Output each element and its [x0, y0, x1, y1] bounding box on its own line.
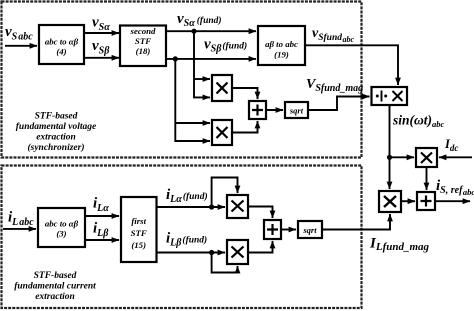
- wire VSfund_mag to divider: [308, 97, 370, 111]
- wire vSbeta: [84, 57, 119, 59]
- wire Idc input: [439, 156, 472, 158]
- wire Idc-multiplier to output adder: [426, 167, 428, 190]
- svg-text:(3): (3): [56, 229, 66, 239]
- wire vSbeta squared feed: [175, 59, 210, 141]
- wire vSabc input: [5, 45, 37, 47]
- wire vSalpha squared feed upper branch: [194, 78, 210, 80]
- wire vSfund_abc from (19) to divider: [305, 45, 398, 85]
- block sqrt (current): [298, 221, 322, 238]
- wire vSalpha^2 to adder: [232, 88, 258, 99]
- svg-text:(19): (19): [274, 50, 289, 60]
- svg-text:STF-based: STF-based: [34, 271, 77, 281]
- junction on vSalpha(fund): [191, 29, 196, 34]
- svg-text:extraction: extraction: [35, 292, 75, 302]
- svg-text:extraction: extraction: [36, 133, 76, 143]
- svg-text:STF-based: STF-based: [35, 112, 78, 122]
- svg-text:fundamental current: fundamental current: [14, 282, 96, 292]
- svg-text:fundamental voltage: fundamental voltage: [16, 122, 97, 132]
- wire iLalpha square loop: [212, 178, 238, 208]
- svg-text:sqrt: sqrt: [302, 225, 317, 235]
- wire vSbeta^2 to adder: [232, 121, 258, 133]
- wire iLbeta(fund): [157, 252, 226, 254]
- wire iLalpha(fund): [157, 206, 226, 208]
- svg-text:second: second: [130, 26, 157, 36]
- multiplier (vSalpha^2): [212, 75, 232, 101]
- adder (current): [264, 220, 281, 239]
- wire ILfund_mag to multiplier: [322, 214, 390, 230]
- multiplier (vSbeta^2): [212, 120, 232, 145]
- svg-text:(18): (18): [136, 46, 151, 56]
- wire iLalpha: [85, 215, 119, 217]
- label STF-based fundamental current extraction: [14, 271, 96, 302]
- svg-text:(synchronizer): (synchronizer): [27, 142, 84, 153]
- wire iLbeta: [85, 239, 119, 241]
- wire vSalpha squared feed: [194, 31, 210, 97]
- svg-text:STF: STF: [135, 36, 151, 46]
- wire adder to sqrt (current): [281, 229, 296, 231]
- multiplier (sin x ILfund_mag): [379, 191, 401, 212]
- label STF-based fundamental voltage extraction (synchronizer): [16, 112, 97, 154]
- svg-text:(4): (4): [56, 47, 66, 57]
- divider-multiplier block: [372, 87, 408, 105]
- junction on sin line: [387, 155, 392, 160]
- wire adder to sqrt (voltage): [266, 109, 283, 111]
- svg-text:(15): (15): [131, 240, 146, 250]
- wire vSalpha(fund): [166, 30, 256, 32]
- svg-text:abc to αβ: abc to αβ: [45, 37, 79, 47]
- dashed box: STF-based fundamental current extraction: [2, 166, 362, 309]
- wire iLbeta square loop: [212, 253, 238, 273]
- junction on iLalpha(fund): [209, 204, 214, 209]
- svg-text:STF: STF: [131, 228, 147, 238]
- wire iS,ref output: [435, 200, 470, 202]
- junction on iLbeta(fund): [209, 250, 214, 255]
- dashed box: STF-based fundamental voltage extraction (synchronizer): [2, 2, 362, 158]
- multiplier (iLbeta^2): [227, 240, 248, 264]
- svg-text:aβ to abc: aβ to abc: [265, 39, 298, 49]
- adder (voltage): [249, 101, 266, 119]
- wire vSbeta squared feed upper branch: [175, 122, 210, 124]
- wire vSalpha: [84, 32, 119, 34]
- block abc to alphabeta (3): [38, 208, 85, 247]
- svg-text:abc to αβ: abc to αβ: [45, 219, 79, 229]
- block sqrt (voltage): [285, 102, 308, 118]
- wire multiplier to output adder: [401, 200, 415, 202]
- wire sin(wt)abc down from divider: [389, 105, 391, 189]
- wire vSbeta(fund): [166, 58, 256, 60]
- wire iLabc input: [3, 228, 36, 230]
- wire sin branch to Idc multiplier: [390, 156, 415, 158]
- block first STF (15): [121, 197, 157, 262]
- svg-text:sqrt: sqrt: [289, 106, 304, 116]
- wire iLbeta^2 to adder: [248, 241, 273, 253]
- multiplier with Idc: [416, 148, 437, 167]
- block alphabeta to abc (19): [258, 26, 305, 65]
- junction on vSbeta(fund): [173, 56, 178, 61]
- wire iLalpha^2 to adder: [248, 207, 273, 219]
- svg-text:first: first: [131, 216, 146, 226]
- output adder: [417, 192, 435, 210]
- block abc to alphabeta (4): [39, 25, 84, 64]
- block second STF (18): [120, 26, 166, 67]
- multiplier (iLalpha^2): [227, 195, 248, 218]
